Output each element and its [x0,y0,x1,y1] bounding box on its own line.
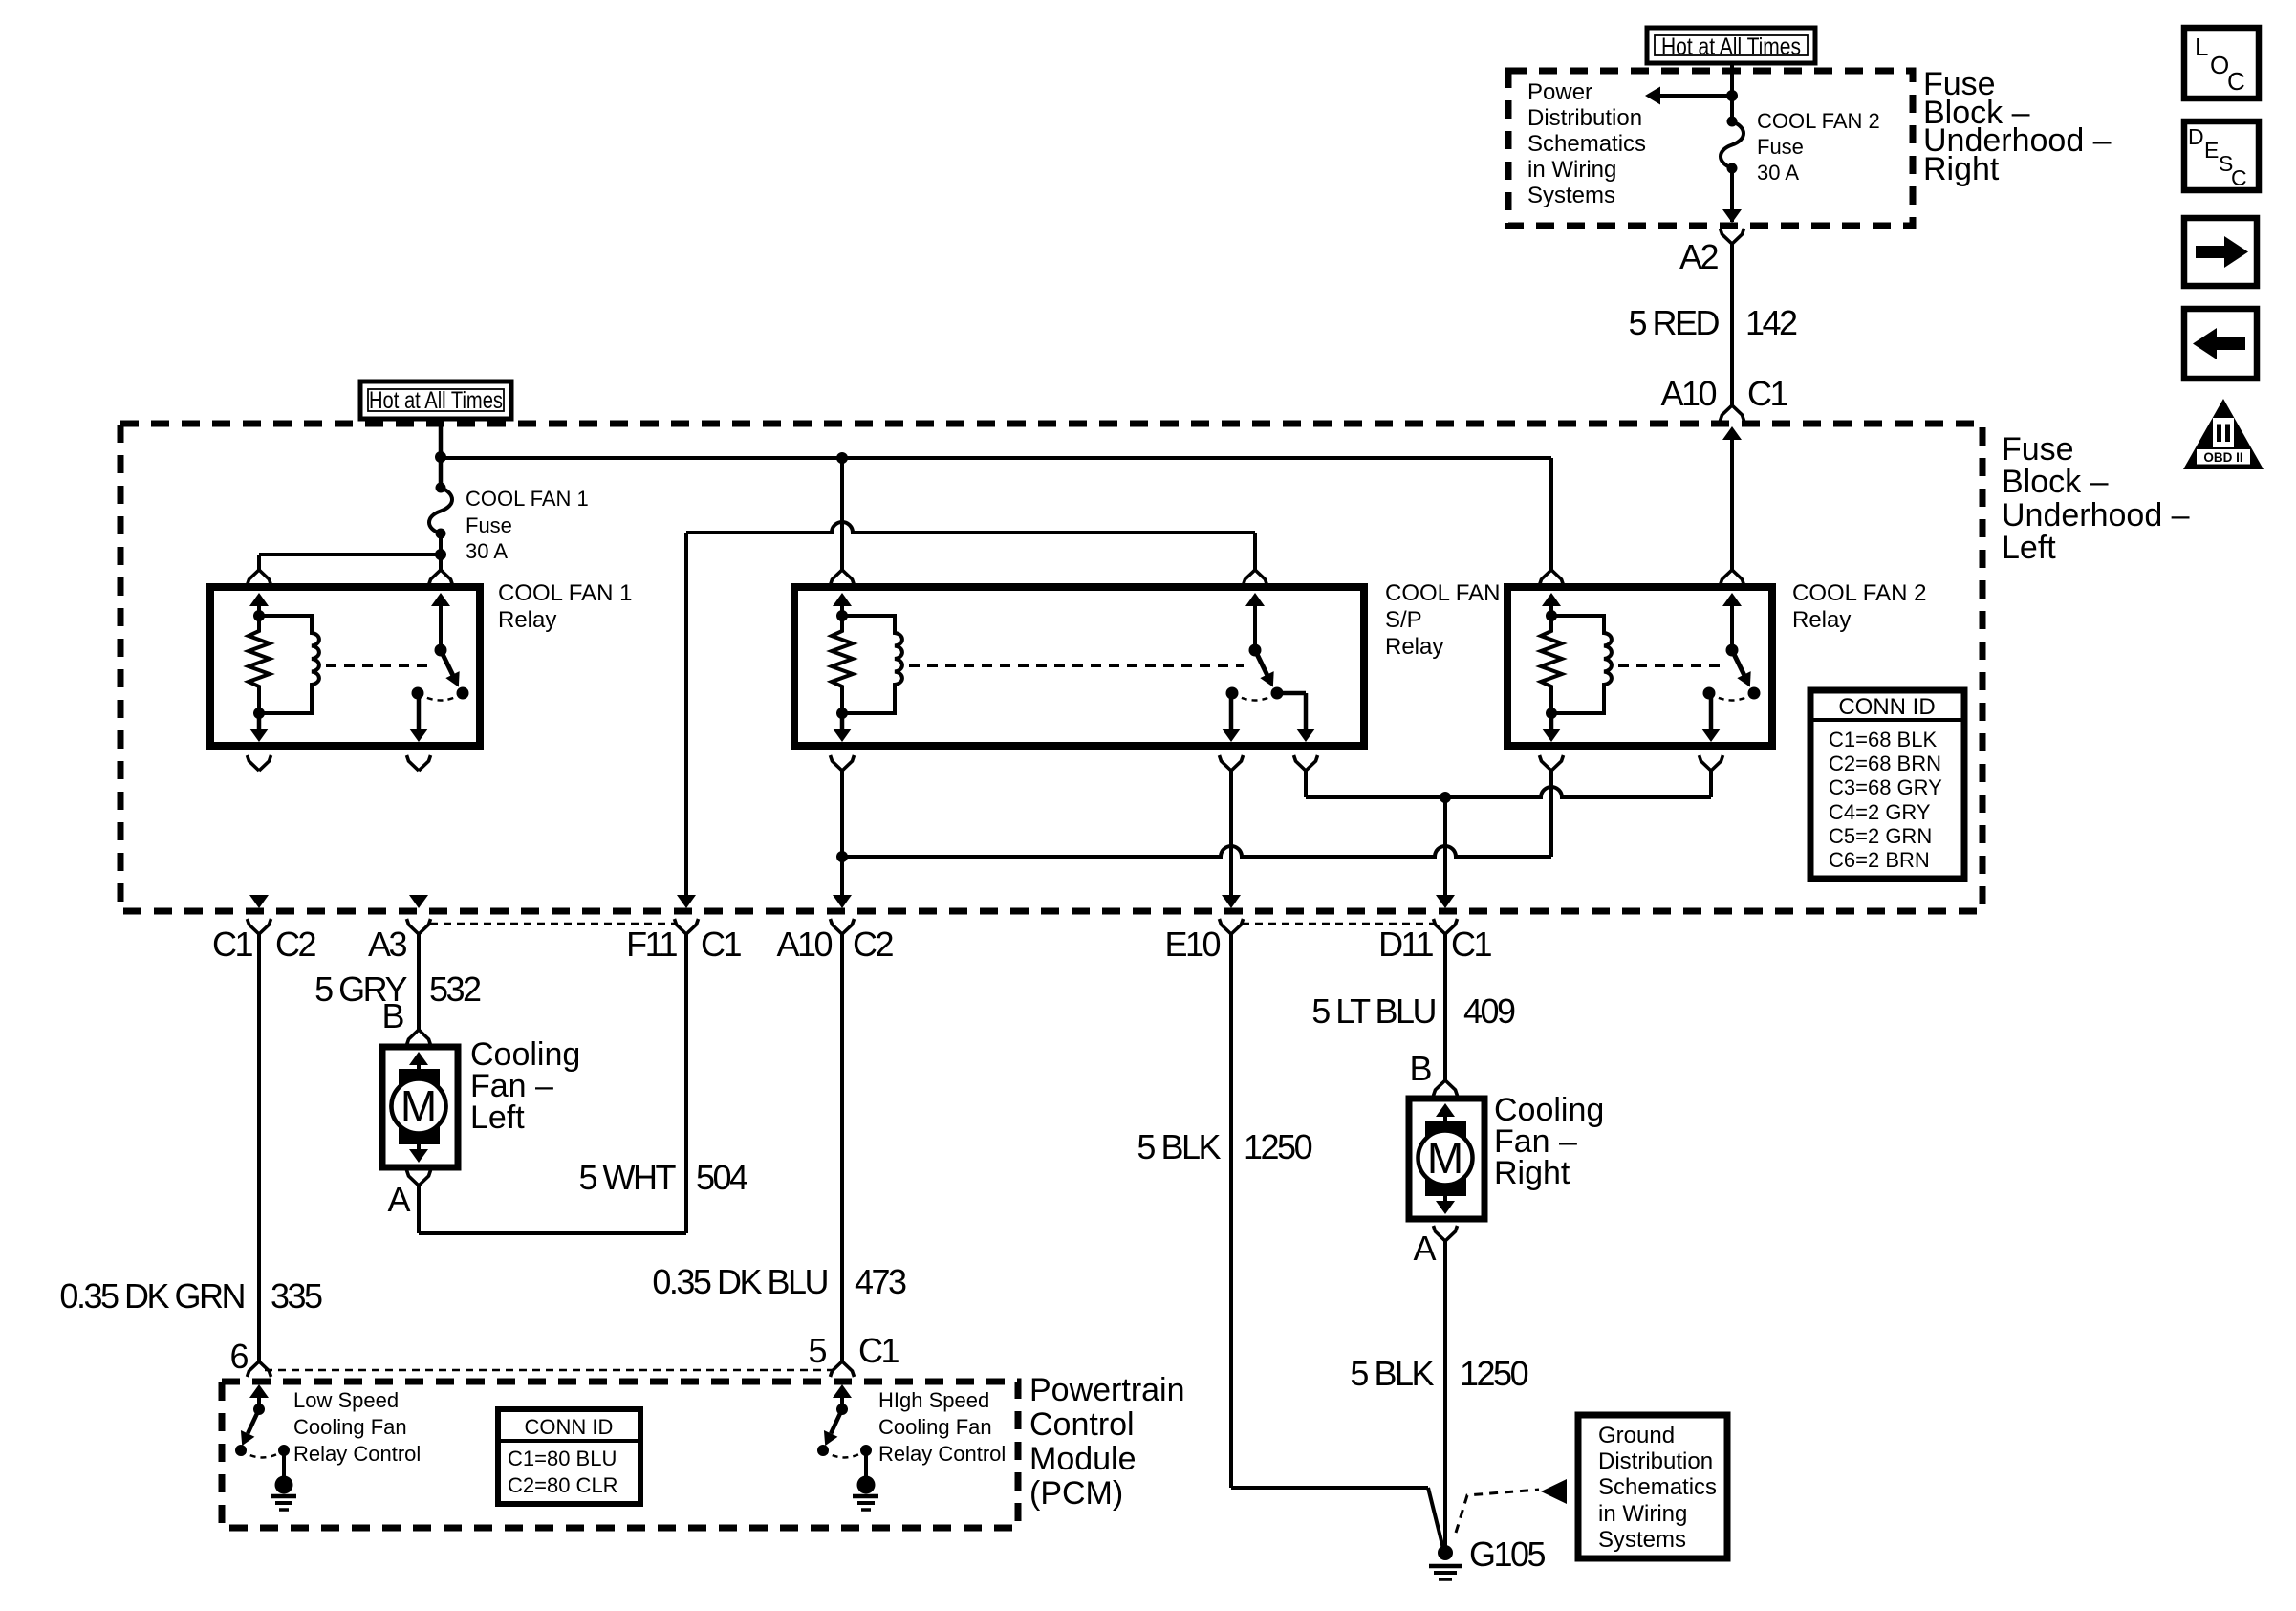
relay COOL FAN 1 switch pin connector [429,570,453,585]
relay COOL FAN 2 switch arm [1727,651,1757,690]
connector chevron cooling fan right B [1434,1080,1458,1096]
svg-text:C2=68 BRN: C2=68 BRN [1829,751,1941,775]
thin dashed connector line A3 to F11 [430,923,676,925]
node line1 to S/P coil [836,452,848,464]
svg-text:A2: A2 [1679,237,1719,276]
svg-text:C5=2 GRN: C5=2 GRN [1829,824,1932,848]
thin dashed connector line E10 to D11 [1242,923,1435,925]
wire hot feed [439,419,444,488]
label Cooling Fan Left [470,1036,580,1136]
svg-text:D11: D11 [1378,925,1433,964]
arrow entering PCM pin 5 [833,1384,852,1398]
connector chevron E10 [1220,919,1244,934]
low speed relay control switch [253,1404,265,1415]
svg-text:CONN ID: CONN ID [525,1415,614,1439]
relay COOL FAN 2 coil top node [1546,610,1557,621]
svg-text:B: B [1409,1049,1431,1088]
wire fuse to A2 [1730,168,1734,222]
relay COOL FAN 1 coil top node [253,610,265,621]
cooling fan left motor [382,1047,458,1167]
svg-text:M: M [1427,1133,1463,1183]
relay COOL FAN 2 coil pin arrow [1542,593,1561,606]
svg-text:30 A: 30 A [1757,161,1799,185]
svg-text:E: E [2204,138,2219,163]
svg-text:Schematics: Schematics [1527,131,1646,157]
svg-text:Left: Left [470,1099,525,1136]
svg-text:Cooling Fan: Cooling Fan [293,1415,407,1439]
connector chevron PCM pin 6 [248,1361,271,1377]
svg-text:C1: C1 [1747,374,1787,413]
relay COOL FAN 2 resistor [1541,616,1562,713]
arrow at fuse block exit F11/C1 [677,895,696,908]
wire E10 drop [1229,771,1233,895]
svg-text:C4=2 GRY: C4=2 GRY [1829,800,1931,824]
relay S/P coil output connector [831,755,855,771]
svg-text:335: 335 [271,1276,322,1316]
svg-text:A3: A3 [368,925,407,964]
relay COOL FAN 2 coil pin connector [1540,570,1564,585]
svg-text:M: M [401,1081,437,1131]
svg-text:CONN ID: CONN ID [1838,694,1935,720]
svg-text:473: 473 [855,1262,906,1301]
svg-text:C2=80 CLR: C2=80 CLR [508,1473,618,1497]
relay COOL FAN 2 switch pin arrow [1722,593,1742,606]
arrow entering fuse block left [1722,426,1742,440]
svg-text:C2: C2 [853,925,893,964]
svg-text:C1: C1 [701,925,741,964]
relay COOL FAN 1 resistor [249,616,270,713]
label COOL FAN 2 Fuse 30 A [1757,109,1880,185]
label Fuse Block Underhood Left [2002,431,2190,566]
wire 5 LT BLU 409 [1443,934,1447,1080]
svg-text:5 WHT: 5 WHT [579,1158,677,1197]
relay COOL FAN S/P switch contacts [1271,687,1284,700]
relay COOL FAN 2 switch contacts [1748,687,1761,700]
wire line1 bus to cool fan 2 relay coil [441,456,1551,460]
relay COOL FAN 1 switch contacts [457,687,469,700]
wire S/P coil feed [840,458,844,570]
relay COOL FAN 2 common output connector [1700,755,1723,771]
node fuse output split [435,549,446,560]
svg-text:C1=80 BLU: C1=80 BLU [508,1447,617,1470]
relay COOL FAN 2 common output wire [1709,693,1714,730]
node y834 junction to D11 [1440,792,1451,803]
relay COOL FAN S/P resistor [832,616,853,713]
relay COOL FAN S/P box [794,587,1364,746]
svg-text:Fuse: Fuse [466,513,512,537]
svg-text:Powertrain: Powertrain [1029,1372,1185,1408]
relay COOL FAN 1 label [498,580,632,633]
relay COOL FAN S/P coil top node [836,610,848,621]
relay COOL FAN 2 coil output arrow [1542,729,1561,742]
svg-text:Fuse: Fuse [1757,135,1804,159]
label Cooling Fan Right [1494,1092,1604,1191]
relay COOL FAN S/P actuation dashed link [909,664,1244,667]
svg-text:A10: A10 [1660,374,1716,413]
svg-text:0.35 DK GRN: 0.35 DK GRN [59,1276,244,1316]
wire S/P coil output to A10/C2 and cool fan 2 coil (y896 with hops) [840,771,844,895]
motor left pin A arrow [409,1149,428,1163]
svg-text:Ground: Ground [1598,1423,1675,1448]
svg-text:409: 409 [1463,991,1515,1031]
connector chevron cooling fan right A [1434,1226,1458,1241]
svg-text:COOL FAN 2: COOL FAN 2 [1792,580,1926,606]
svg-text:30 A: 30 A [466,539,508,563]
svg-text:Control: Control [1029,1406,1135,1443]
relay COOL FAN S/P coil [842,616,902,713]
wire A3 to cooling fan left B [417,934,421,1030]
arrow at fuse block exit E10 [1222,895,1241,908]
connector chevron A10/C1 [1721,405,1744,421]
relay COOL FAN S/P coil pin connector [831,570,855,585]
ground G105 [1438,1545,1453,1560]
arrow entering PCM pin 6 [249,1384,269,1398]
fuse COOL FAN 2 30A [1727,117,1738,127]
svg-text:5 RED: 5 RED [1628,303,1719,342]
wire arrow to power distribution schematics [1658,94,1732,98]
svg-text:Hot at All Times: Hot at All Times [1661,33,1801,60]
connector chevron A10/C2 [831,919,855,934]
relay COOL FAN 1 coil [259,616,319,713]
svg-text:G105: G105 [1469,1535,1546,1574]
connector chevron cooling fan left B [407,1030,431,1045]
relay COOL FAN 1 coil pin connector [248,570,271,585]
relay COOL FAN 1 coil output connector [248,755,271,771]
arrow at fuse block exit D11/C1 [1436,895,1455,908]
fuse block underhood left dashed box [120,424,1982,911]
svg-text:C1: C1 [212,925,252,964]
svg-text:in Wiring: in Wiring [1527,157,1616,183]
relay S/P contact output connector [1294,755,1318,771]
icon OBD II triangle [2183,399,2264,469]
svg-text:OBD II: OBD II [2203,450,2242,465]
connector chevron PCM pin 5/C1 [831,1361,855,1377]
svg-text:Schematics: Schematics [1598,1474,1717,1500]
relay COOL FAN S/P switch arm [1250,651,1280,690]
wire fuse output [439,533,443,570]
arrow at fuse block right exit [1722,209,1742,223]
svg-text:Relay: Relay [498,607,556,633]
node bus tap [435,451,446,463]
powertrain control module dashed box [222,1382,1018,1528]
connector chevron C1/C2 [248,919,271,934]
svg-text:Systems: Systems [1527,183,1615,208]
text power distribution schematics in wiring systems [1527,79,1646,208]
CONN ID box (PCM) [498,1409,640,1504]
svg-text:Block –: Block – [2002,464,2109,500]
relay COOL FAN S/P label [1385,580,1500,660]
icon LOC box [2184,28,2259,98]
relay COOL FAN 2 switch pivot [1726,644,1739,657]
ground low speed driver [282,1450,286,1478]
wire 0.35 DK BLU 473 [840,934,844,1361]
wire 5 RED 142 [1730,244,1734,405]
connector chevron cooling fan left A [407,1170,431,1186]
wire 5 BLK 1250 (E10 branch) [1229,934,1233,1488]
relay COOL FAN 1 switch pin arrow [431,593,450,606]
relay COOL FAN 2 coil [1551,616,1612,713]
relay S/P contact output arrow [1296,729,1315,742]
text low speed cooling fan relay control [293,1388,421,1466]
relay COOL FAN 1 switch output connector [407,755,431,771]
relay COOL FAN 1 actuation dashed link [326,664,429,667]
svg-text:Low Speed: Low Speed [293,1388,399,1412]
relay COOL FAN 2 actuation dashed link [1618,664,1721,667]
relay COOL FAN 1 switch arm [436,651,466,690]
svg-text:0.35 DK BLU: 0.35 DK BLU [652,1262,827,1301]
svg-text:Systems: Systems [1598,1527,1686,1553]
relay COOL FAN 2 coil output connector [1540,755,1564,771]
svg-text:L: L [2195,33,2208,61]
svg-text:Relay Control: Relay Control [878,1442,1006,1466]
connector chevron A2 [1721,229,1744,244]
relay COOL FAN 1 coil pin arrow [249,593,269,606]
svg-text:C: C [2231,165,2247,190]
wire D11 drop [1443,797,1447,895]
svg-text:Cooling Fan: Cooling Fan [878,1415,992,1439]
svg-text:C: C [2227,67,2245,96]
svg-text:Relay: Relay [1385,634,1443,660]
svg-text:S/P: S/P [1385,607,1422,633]
svg-text:Relay Control: Relay Control [293,1442,421,1466]
wire 5 BLK 1250 to G105 [1443,1241,1447,1549]
icon forward arrow box [2184,218,2257,286]
high speed relay control switch [836,1404,848,1415]
svg-text:COOL FAN 1: COOL FAN 1 [466,487,589,511]
icon DESC box [2184,121,2259,190]
svg-text:Relay: Relay [1792,607,1851,633]
svg-text:1250: 1250 [1460,1354,1528,1393]
svg-text:C1: C1 [858,1331,899,1370]
svg-text:142: 142 [1745,303,1797,342]
svg-text:A10: A10 [776,925,832,964]
relay COOL FAN S/P switch pin arrow [1245,593,1265,606]
relay COOL FAN 1 coil bottom node [253,708,265,719]
ground high speed driver [864,1450,868,1478]
svg-text:C1=68 BLK: C1=68 BLK [1829,728,1937,751]
wire line2 F11 to S/P relay switch (hop over coil feed) [686,522,1255,533]
relay COOL FAN 1 coil output arrow [249,729,269,742]
relay S/P common output connector [1220,755,1244,771]
wire diagonal into G105 [1428,1488,1443,1549]
svg-text:C1: C1 [1451,925,1491,964]
icon back arrow box [2184,309,2257,379]
node power distribution tap [1726,90,1738,101]
arrow at fuse block exit C1/C2 [249,895,269,908]
relay S/P contact output wire [1278,691,1306,696]
svg-text:5: 5 [808,1331,826,1370]
Hot at All Times box (right) [1647,28,1815,63]
svg-text:Underhood –: Underhood – [2002,497,2190,533]
svg-text:A: A [1413,1229,1436,1268]
svg-text:Power: Power [1527,79,1592,105]
svg-text:A: A [387,1180,410,1219]
CONN ID box (fuse block) [1810,690,1964,879]
relay COOL FAN 1 switch pivot [435,644,447,657]
svg-text:504: 504 [696,1158,747,1197]
relay COOL FAN S/P switch pivot [1249,644,1262,657]
svg-text:COOL FAN: COOL FAN [1385,580,1500,606]
svg-text:5 BLK: 5 BLK [1350,1354,1434,1393]
svg-text:Right: Right [1923,151,2000,187]
svg-text:C3=68 GRY: C3=68 GRY [1829,775,1942,799]
arrow at fuse block exit A10/C2 [833,895,852,908]
svg-text:B: B [381,996,403,1035]
text high speed cooling fan relay control [878,1388,1006,1466]
wire to relay1 coil pin [259,553,441,556]
svg-text:Right: Right [1494,1155,1570,1191]
relay S/P common output wire [1229,693,1234,730]
svg-text:E10: E10 [1164,925,1220,964]
connector chevron A3 [407,919,431,934]
fuse block underhood right dashed box [1508,71,1913,226]
wire from hot box into fuse block right [1730,63,1734,121]
svg-text:in Wiring: in Wiring [1598,1501,1687,1527]
svg-text:Left: Left [2002,530,2056,566]
relay COOL FAN S/P coil bottom node [836,708,848,719]
wire 5 WHT 504 from fan A to F11 [417,1186,421,1233]
relay COOL FAN 1 box [210,587,480,746]
svg-text:HIgh Speed: HIgh Speed [878,1388,989,1412]
wire 0.35 DK GRN 335 [257,934,261,1361]
svg-text:D: D [2188,124,2204,149]
svg-text:Fuse: Fuse [2002,431,2074,468]
motor left pin B arrow [409,1052,428,1065]
relay COOL FAN 2 coil bottom node [1546,708,1557,719]
relay COOL FAN 2 box [1507,587,1772,746]
svg-text:5 LT BLU: 5 LT BLU [1311,991,1435,1031]
relay COOL FAN S/P switch pin connector [1244,570,1267,585]
connector chevron F11/C1 [675,919,699,934]
svg-text:COOL FAN 2: COOL FAN 2 [1757,109,1880,133]
motor right pin B arrow [1436,1103,1455,1117]
svg-text:Hot at All Times: Hot at All Times [369,387,503,414]
arrow at fuse block exit A3 [409,895,428,908]
relay COOL FAN 1 switch output arrow [409,729,428,742]
thin dashed connector line 6 to 5 [265,1369,836,1372]
svg-text:Distribution: Distribution [1598,1448,1713,1474]
wire S/P contact output to cool fan 2 common (y834 with hop) [1304,771,1308,797]
svg-text:5 BLK: 5 BLK [1137,1127,1221,1166]
wire F11 riser [684,533,688,895]
relay COOL FAN S/P coil output arrow [833,729,852,742]
relay COOL FAN 1 switch output wire [417,693,422,730]
svg-text:(PCM): (PCM) [1029,1475,1123,1512]
svg-text:Distribution: Distribution [1527,105,1642,131]
label Fuse Block Underhood Right [1923,66,2112,187]
ground distribution schematics box [1578,1415,1727,1558]
svg-text:C2: C2 [275,925,315,964]
cooling fan right motor [1409,1099,1484,1219]
motor right pin A arrow [1436,1201,1455,1214]
fuse COOL FAN 1 30A [436,483,446,493]
relay COOL FAN 2 common output arrow [1701,729,1721,742]
relay COOL FAN S/P coil pin arrow [833,593,852,606]
svg-text:C6=2 BRN: C6=2 BRN [1829,848,1930,872]
Hot at All Times box (left) [360,381,511,419]
label COOL FAN 1 Fuse 30 A [466,487,589,563]
svg-text:1250: 1250 [1244,1127,1312,1166]
relay COOL FAN 2 switch pin connector [1721,570,1744,585]
svg-text:532: 532 [429,969,481,1009]
svg-text:6: 6 [229,1337,248,1376]
svg-text:COOL FAN 1: COOL FAN 1 [498,580,632,606]
svg-text:F11: F11 [626,925,677,964]
svg-text:Module: Module [1029,1441,1137,1477]
dashed reference arrow to ground distribution [1456,1490,1539,1533]
relay S/P common output arrow [1222,729,1241,742]
label Powertrain Control Module (PCM) [1029,1372,1185,1512]
node y896 junction [836,851,848,862]
connector chevron D11/C1 [1434,919,1458,934]
relay COOL FAN 2 label [1792,580,1926,633]
